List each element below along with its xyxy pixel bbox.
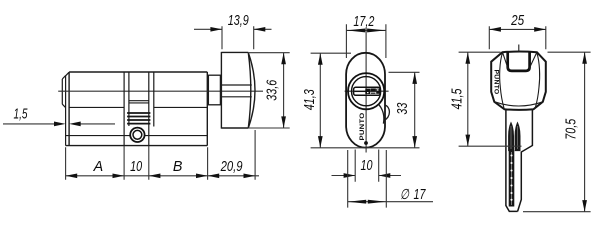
svg-text:A: A	[93, 159, 104, 175]
dimension 70,5	[523, 52, 591, 212]
dimension row A 10 B 20,9	[66, 130, 259, 180]
dimension 33,6	[248, 53, 290, 128]
svg-text:∅: ∅	[400, 187, 409, 203]
key head hanger cutout	[508, 52, 530, 71]
plug inner circle	[352, 77, 381, 106]
svg-text:17: 17	[414, 187, 427, 203]
svg-text:41,5: 41,5	[450, 88, 466, 109]
dimension 25	[489, 13, 546, 49]
key dimple strip	[509, 151, 515, 207]
svg-text:13,9: 13,9	[228, 13, 249, 29]
cam section verticals	[124, 72, 154, 146]
dimension 1,5	[3, 107, 115, 127]
cylinder face oval	[346, 53, 385, 148]
svg-text:20,9: 20,9	[220, 159, 243, 175]
svg-text:1,5: 1,5	[14, 107, 28, 123]
svg-text:33,6: 33,6	[264, 80, 280, 101]
dimension 33	[389, 72, 420, 147]
dimension diameter 17	[348, 150, 433, 208]
cylinder body outline (side view)	[66, 72, 208, 146]
cam screw circle	[130, 128, 144, 142]
svg-text:25: 25	[510, 13, 524, 29]
svg-text:17,2: 17,2	[353, 14, 374, 30]
dimension 41,5	[450, 52, 522, 146]
key head outline	[491, 52, 546, 110]
screw dot	[364, 141, 368, 145]
knob grip ridges	[221, 85, 251, 97]
face vertical centerline	[365, 28, 367, 153]
key neck and blade outline	[506, 109, 533, 211]
svg-text:70,5: 70,5	[564, 119, 580, 140]
svg-text:10: 10	[361, 158, 373, 174]
face horizontal centerline	[345, 90, 389, 92]
dimension 10 (keyway)	[332, 150, 402, 182]
key grooves	[509, 123, 520, 151]
front rim plate	[66, 72, 70, 145]
dimension 17,2	[346, 14, 386, 58]
plug circle	[348, 73, 384, 109]
plug axis centerline	[58, 90, 263, 92]
svg-text:B: B	[173, 159, 183, 175]
keyhole	[354, 87, 381, 95]
thumbturn knob	[221, 52, 255, 129]
svg-text:41,3: 41,3	[302, 89, 318, 110]
key head facets	[495, 45, 543, 109]
body lower line	[66, 135, 208, 137]
cam ribs	[127, 113, 150, 124]
svg-text:10: 10	[130, 159, 142, 175]
front tab	[62, 76, 65, 108]
svg-text:PUNTO: PUNTO	[360, 112, 366, 140]
cam inner rect bottom	[129, 101, 149, 103]
collar	[208, 75, 220, 105]
svg-text:PUNTO: PUNTO	[493, 70, 500, 95]
dimension 13,9	[194, 13, 272, 49]
dimension 41,3	[302, 53, 419, 148]
plug bottom line	[69, 106, 207, 108]
svg-text:33: 33	[395, 103, 411, 115]
cam lobe	[379, 104, 390, 123]
